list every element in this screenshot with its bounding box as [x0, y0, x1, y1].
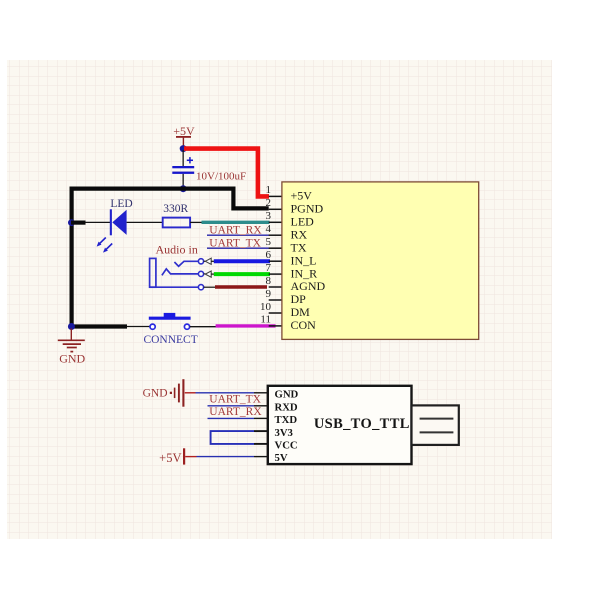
- svg-text:330R: 330R: [163, 203, 188, 215]
- svg-text:UART_RX: UART_RX: [209, 225, 262, 237]
- svg-text:UART_TX: UART_TX: [209, 393, 261, 405]
- svg-text:3: 3: [266, 210, 272, 222]
- power port +5V (bottom): [159, 448, 184, 465]
- svg-text:RXD: RXD: [275, 401, 298, 413]
- net label UART_RX wire: [207, 234, 269, 236]
- wire AGND (dark red): [215, 285, 267, 288]
- svg-text:GND: GND: [143, 388, 168, 400]
- USB connector symbol: [412, 405, 459, 445]
- svg-text:8: 8: [266, 275, 272, 287]
- wire RXD: [208, 405, 269, 407]
- svg-text:GND: GND: [59, 352, 85, 366]
- module U2 USB_TO_TTL: [268, 386, 412, 464]
- wire LED to resistor: [127, 221, 163, 223]
- switch S1 CONNECT: [143, 313, 197, 346]
- svg-text:10: 10: [260, 301, 272, 313]
- pin names U2: [275, 389, 299, 465]
- svg-text:CONNECT: CONNECT: [143, 334, 197, 346]
- svg-text:VCC: VCC: [275, 440, 298, 452]
- wire switch to CON net: [190, 326, 216, 328]
- wire resistor to LED net: [190, 221, 202, 223]
- svg-text:2: 2: [266, 197, 272, 209]
- wire AGND link: [204, 286, 216, 288]
- power port GND (bottom, battery style): [143, 379, 184, 407]
- wire IN_R (green): [214, 272, 270, 276]
- arrow marker IN_R: [204, 271, 215, 277]
- svg-text:5V: 5V: [275, 452, 288, 464]
- wire LED net (teal): [202, 221, 270, 224]
- wire 3V3-VCC loop: [211, 431, 269, 444]
- wire +5V to pin 1 (red): [184, 149, 269, 197]
- ground symbol GND (top-left): [58, 328, 86, 365]
- IC U1 (bluetooth module block): [282, 182, 479, 340]
- svg-text:5: 5: [266, 236, 272, 248]
- svg-text:+5V: +5V: [159, 451, 181, 465]
- svg-text:11: 11: [260, 314, 271, 326]
- junction dot B (bottom of capacitor): [180, 185, 187, 192]
- svg-text:+5V: +5V: [173, 124, 195, 138]
- svg-text:DP: DP: [291, 292, 307, 306]
- wire LED stub (thick): [71, 221, 86, 225]
- svg-text:7: 7: [266, 262, 272, 274]
- wire GND to U2: [185, 392, 269, 394]
- junction dot C (LED branch): [68, 219, 75, 226]
- pin names U1: [291, 189, 326, 333]
- svg-text:LED: LED: [291, 215, 315, 229]
- junction dot A (top of capacitor): [180, 145, 187, 152]
- svg-text:GND: GND: [275, 389, 299, 401]
- junction dot D (CONNECT branch): [68, 323, 75, 330]
- capacitor C1 10V/100uF: [172, 150, 246, 186]
- wire IN_L (blue): [214, 259, 270, 263]
- svg-text:6: 6: [266, 249, 272, 261]
- svg-text:DM: DM: [291, 305, 311, 319]
- svg-text:IN_L: IN_L: [291, 253, 317, 267]
- svg-text:4: 4: [266, 223, 272, 235]
- wire TXD: [208, 417, 269, 419]
- resistor R1 330R: [163, 203, 190, 227]
- svg-text:PGND: PGND: [291, 202, 324, 216]
- svg-text:UART_RX: UART_RX: [209, 406, 262, 418]
- svg-text:1: 1: [266, 184, 272, 196]
- svg-text:TXD: TXD: [275, 414, 298, 426]
- pin stubs U1: [269, 196, 282, 326]
- svg-text:RX: RX: [291, 227, 308, 241]
- arrow marker IN_L: [204, 258, 215, 264]
- svg-text:LED: LED: [110, 198, 132, 210]
- pin numbers U1: [260, 184, 272, 326]
- schematic sheet area: [7, 60, 552, 539]
- audio jack J1: [150, 258, 204, 289]
- net label UART_TX wire: [207, 247, 269, 249]
- LED D1: [97, 198, 133, 253]
- svg-text:AGND: AGND: [291, 279, 326, 293]
- svg-text:IN_R: IN_R: [291, 266, 318, 280]
- svg-text:Audio in: Audio in: [156, 243, 198, 257]
- svg-text:CON: CON: [291, 318, 317, 332]
- svg-text:UART_TX: UART_TX: [209, 238, 261, 250]
- wire main black bus: [72, 189, 269, 327]
- wire to LED (thin): [85, 221, 110, 223]
- wire +5V to U2: [185, 456, 268, 458]
- wire CON (magenta): [216, 324, 276, 327]
- svg-text:TX: TX: [291, 240, 307, 254]
- wire to switch (thin): [127, 326, 150, 328]
- svg-text:10V/100uF: 10V/100uF: [196, 171, 246, 183]
- svg-text:+5V: +5V: [291, 189, 313, 203]
- svg-text:9: 9: [266, 288, 272, 300]
- power port +5V (top): [173, 124, 195, 147]
- svg-text:3V3: 3V3: [275, 427, 293, 439]
- svg-text:USB_TO_TTL: USB_TO_TTL: [314, 416, 410, 432]
